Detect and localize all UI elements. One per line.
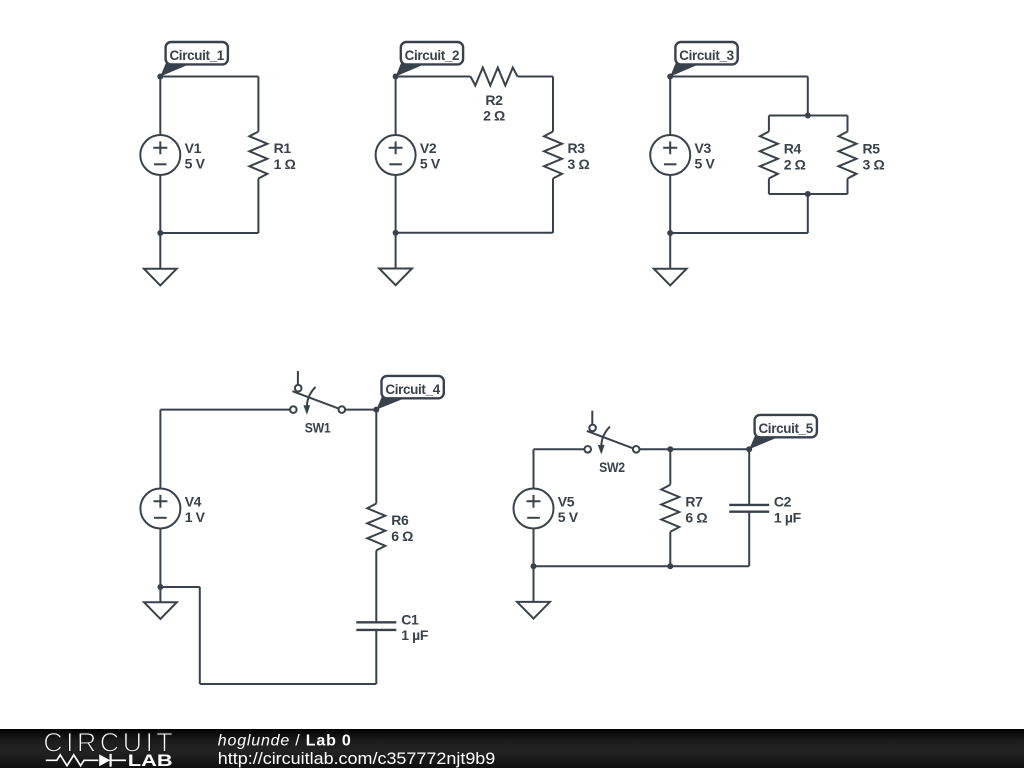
- ground GND5 symbol: [517, 602, 550, 619]
- wire: R6 to C1: [375, 551, 377, 623]
- voltage source V3 body: [650, 135, 690, 175]
- wire: bottom rail riser: [199, 587, 201, 684]
- wire: Circuit_2 top rail right: [518, 76, 554, 78]
- callout flag Circuit_1: [166, 42, 228, 64]
- callout pointer wedge for Circuit_4: [376, 396, 406, 409]
- wire: Circuit_1 bottom rail: [160, 232, 258, 234]
- wire: R7 top lead: [669, 449, 671, 484]
- svg-text:R4: R4: [784, 141, 802, 157]
- wire: V2 top lead: [395, 77, 397, 136]
- svg-text:http://circuitlab.com/c357772n: http://circuitlab.com/c357772njt9b9: [218, 750, 496, 768]
- svg-text:R2: R2: [485, 92, 503, 108]
- svg-text:6 Ω: 6 Ω: [685, 509, 707, 525]
- junction dot Circuit_2 ground node: [393, 230, 399, 236]
- svg-text:C1: C1: [401, 612, 419, 628]
- switch SW1 lever: [292, 391, 338, 408]
- svg-text:V4: V4: [185, 494, 202, 510]
- switch SW1 actuation arrow: [303, 387, 315, 415]
- ground GND2 stub wire: [395, 233, 397, 269]
- wire: V5 top lead: [533, 449, 535, 488]
- wire: Circuit_5 top rail to switch: [534, 448, 585, 450]
- svg-text:LAB: LAB: [128, 752, 173, 768]
- wire: V2 bottom lead: [395, 175, 397, 233]
- svg-text:R5: R5: [863, 141, 881, 157]
- ground GND1 symbol: [144, 269, 177, 286]
- wire: switch SW1 to node: [345, 409, 376, 411]
- wire: R4 top lead: [768, 116, 770, 132]
- junction dot Circuit_5 ground node: [531, 563, 537, 569]
- wire: C2 top lead: [748, 449, 750, 505]
- svg-text:SW2: SW2: [599, 459, 625, 475]
- switch SW1 throw stub wire: [297, 371, 299, 385]
- wire: top rail drop to parallel pair: [807, 77, 809, 116]
- wire: V5 bottom lead: [533, 529, 535, 567]
- svg-text:2 Ω: 2 Ω: [483, 107, 505, 123]
- svg-text:2 Ω: 2 Ω: [784, 157, 806, 173]
- svg-text:R7: R7: [685, 493, 703, 509]
- svg-text:Circuit_5: Circuit_5: [758, 420, 813, 436]
- svg-text:1 µF: 1 µF: [774, 509, 802, 525]
- callout pointer wedge for Circuit_3: [670, 63, 700, 77]
- wire: R1 bottom lead: [257, 179, 259, 234]
- svg-text:5 V: 5 V: [420, 156, 441, 172]
- resistor R2: [471, 68, 518, 86]
- wire: V1 top lead: [159, 77, 161, 136]
- wire: Circuit_3 bottom rail: [670, 232, 808, 234]
- voltage source V5 body: [514, 489, 554, 529]
- wire: V4 top lead: [159, 410, 161, 489]
- switch SW2 throw stub wire: [591, 411, 593, 425]
- wire: V4 bottom lead: [159, 529, 161, 588]
- wire: R6 top lead: [375, 410, 377, 504]
- switch SW2 left terminal: [584, 446, 591, 453]
- voltage source V4 body: [140, 489, 180, 529]
- svg-text:Circuit_4: Circuit_4: [385, 381, 440, 397]
- ground GND5 stub wire: [533, 566, 535, 602]
- switch SW1 right terminal: [339, 406, 346, 413]
- svg-text:6 Ω: 6 Ω: [391, 528, 413, 544]
- svg-text:3 Ω: 3 Ω: [568, 156, 590, 172]
- wire: R5 bottom lead: [847, 179, 849, 195]
- switch SW2 right terminal: [633, 446, 640, 453]
- wire: switch SW2 to node: [640, 448, 750, 450]
- callout pointer wedge for Circuit_1: [160, 63, 190, 77]
- switch SW1 left terminal: [290, 406, 297, 413]
- junction dot node Circuit_3: [667, 74, 673, 80]
- svg-text:1 Ω: 1 Ω: [274, 156, 296, 172]
- wire: R4 bottom lead: [768, 179, 770, 195]
- svg-text:V3: V3: [695, 140, 712, 156]
- resistor R3: [544, 132, 562, 179]
- svg-text:R3: R3: [568, 140, 586, 156]
- wire: C2 bottom lead: [748, 512, 750, 567]
- switch SW1 top terminal: [295, 385, 302, 392]
- svg-text:5 V: 5 V: [558, 509, 579, 525]
- wire: R1 top lead: [257, 77, 259, 132]
- footer bar: [0, 729, 1024, 768]
- resistor R4: [760, 132, 778, 179]
- resistor R1: [249, 132, 267, 179]
- switch SW2 lever: [587, 431, 633, 448]
- svg-text:1 µF: 1 µF: [401, 627, 429, 643]
- voltage source V1 body: [140, 135, 180, 175]
- wire: C1 bottom lead: [375, 630, 377, 684]
- switch SW2 actuation arrow: [598, 427, 610, 455]
- capacitor C1: [356, 622, 396, 630]
- svg-text:3 Ω: 3 Ω: [863, 157, 885, 173]
- ground GND3 stub wire: [669, 233, 671, 269]
- voltage source V2 body: [376, 135, 416, 175]
- svg-text:V2: V2: [420, 140, 437, 156]
- wire: R3 top lead: [552, 77, 554, 132]
- wire: riser to ground node: [160, 586, 199, 588]
- junction dot Circuit_3 ground node: [667, 230, 673, 236]
- switch SW2 top terminal: [589, 425, 596, 432]
- callout flag Circuit_4: [382, 376, 444, 398]
- wire: R3 bottom lead: [552, 179, 554, 233]
- wire: V3 bottom lead: [669, 175, 671, 233]
- wire: Circuit_2 top rail left: [396, 76, 471, 78]
- capacitor C2: [729, 505, 769, 512]
- junction dot node Circuit_2: [393, 74, 399, 80]
- wire: V3 top lead: [669, 77, 671, 136]
- svg-text:1 V: 1 V: [185, 509, 206, 525]
- junction dot node Circuit_5: [746, 446, 752, 452]
- resistor R7: [661, 485, 679, 532]
- svg-text:Circuit_2: Circuit_2: [405, 47, 460, 63]
- junction dot R7 bottom node: [667, 563, 673, 569]
- ground GND1 stub wire: [159, 233, 161, 269]
- wire: Circuit_4 bottom rail: [200, 683, 376, 685]
- ground GND2 symbol: [379, 269, 412, 286]
- wire: parallel pair drop to bottom rail: [807, 194, 809, 233]
- ground GND4 symbol: [144, 602, 177, 619]
- svg-text:R1: R1: [274, 140, 292, 156]
- junction dot Circuit_4 ground node: [157, 584, 163, 590]
- svg-text:C2: C2: [774, 494, 792, 510]
- resistor R6: [367, 504, 385, 551]
- junction dot Circuit_1 ground node: [157, 230, 163, 236]
- svg-text:V5: V5: [558, 494, 575, 510]
- callout pointer wedge for Circuit_5: [749, 435, 780, 449]
- junction dot parallel bottom node: [805, 191, 811, 197]
- wire: parallel bottom bus: [769, 193, 848, 195]
- wire: parallel top bus: [769, 115, 848, 117]
- junction dot parallel top node: [805, 113, 811, 119]
- ground GND4 stub wire: [159, 587, 161, 602]
- wire: V1 bottom lead: [159, 175, 161, 233]
- resistor R5: [839, 132, 857, 179]
- callout pointer wedge for Circuit_2: [396, 63, 426, 77]
- wire: R7 bottom lead: [669, 532, 671, 567]
- junction dot R7 top node: [667, 446, 673, 452]
- ground GND3 symbol: [654, 269, 687, 286]
- svg-text:V1: V1: [185, 140, 202, 156]
- junction dot node Circuit_4: [373, 407, 379, 413]
- wire: Circuit_1 top rail: [160, 76, 258, 78]
- callout flag Circuit_3: [675, 42, 737, 64]
- svg-text:hoglunde / Lab 0: hoglunde / Lab 0: [218, 732, 352, 749]
- wire: Circuit_2 bottom rail: [396, 232, 553, 234]
- svg-text:SW1: SW1: [305, 419, 331, 435]
- svg-text:R6: R6: [391, 512, 409, 528]
- wire: Circuit_3 top rail: [670, 76, 808, 78]
- callout flag Circuit_5: [755, 415, 817, 437]
- svg-text:5 V: 5 V: [185, 156, 206, 172]
- svg-text:Circuit_3: Circuit_3: [679, 47, 734, 63]
- svg-text:Circuit_1: Circuit_1: [169, 47, 224, 63]
- svg-text:5 V: 5 V: [695, 156, 716, 172]
- junction dot node Circuit_1: [157, 74, 163, 80]
- wire: Circuit_5 bottom rail: [534, 565, 750, 567]
- wire: Circuit_4 top rail to switch: [160, 409, 290, 411]
- CircuitLab logo resistor-diode line: [46, 754, 126, 767]
- callout flag Circuit_2: [401, 42, 463, 64]
- wire: R5 top lead: [847, 116, 849, 132]
